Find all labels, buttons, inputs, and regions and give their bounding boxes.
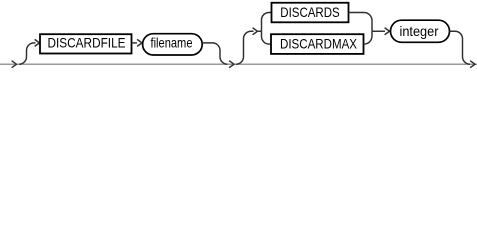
svg-text:DISCARDFILE: DISCARDFILE [48, 35, 126, 51]
svg-text:integer: integer [400, 23, 439, 39]
svg-text:DISCARDMAX: DISCARDMAX [280, 35, 358, 51]
svg-text:filename: filename [151, 34, 193, 50]
svg-text:DISCARDS: DISCARDS [280, 4, 340, 20]
